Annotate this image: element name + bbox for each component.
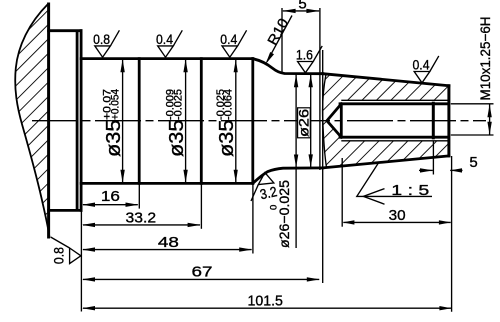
svg-text:1 : 5: 1 : 5 bbox=[391, 182, 429, 199]
fillet bottom and neck bottom edge bbox=[253, 168, 323, 183]
roughness 3.2 fillet (tilted) bbox=[248, 172, 275, 201]
svg-text:48: 48 bbox=[158, 234, 179, 251]
roughness 0.8 sec1 bbox=[93, 30, 119, 57]
extension line groove left bbox=[281, 8, 283, 73]
thread end line bbox=[340, 104, 343, 137]
taper symbol open arrow bbox=[363, 189, 384, 205]
fillet R10 top and neck top edge bbox=[253, 59, 323, 74]
svg-text:33.2: 33.2 bbox=[126, 209, 157, 226]
sec2 diameter label bbox=[165, 89, 188, 157]
svg-text:ø26−0.025: ø26−0.025 bbox=[276, 180, 292, 248]
hub chamfer line bbox=[76, 32, 79, 209]
roughness 0.4 sec2 bbox=[156, 30, 182, 57]
M10 dim line bbox=[489, 105, 491, 135]
roughness 0.4 sec3 bbox=[220, 30, 246, 57]
shaft bottom edge bbox=[81, 182, 253, 185]
taper bottom edge bbox=[323, 156, 449, 168]
svg-text:+0.054: +0.054 bbox=[110, 89, 122, 120]
local section break line bbox=[322, 74, 326, 168]
sec1 diameter label bbox=[102, 89, 125, 157]
dimension 101.5 bbox=[83, 307, 451, 309]
diameter dim line sec2 bbox=[185, 60, 187, 183]
neck diameter dim line (tolerance) bbox=[295, 74, 297, 248]
local section hatch around drill cone bbox=[323, 104, 342, 137]
extension line 67 bbox=[322, 50, 324, 283]
taper top edge bbox=[323, 74, 449, 86]
thread minor (drilled hole) thick lines bbox=[340, 102, 448, 105]
dimension 5 (right, to thread end) bbox=[432, 141, 434, 175]
svg-text:16: 16 bbox=[101, 188, 120, 205]
svg-text:0.8: 0.8 bbox=[93, 31, 110, 47]
svg-text:R10: R10 bbox=[264, 15, 292, 47]
extension line from flange right face bbox=[80, 186, 82, 312]
dimension 48 bbox=[83, 249, 252, 251]
thread depth line bbox=[432, 103, 435, 138]
svg-text:ø35: ø35 bbox=[103, 120, 125, 158]
svg-text:0: 0 bbox=[269, 205, 280, 210]
hub bottom edge bbox=[49, 209, 82, 212]
svg-text:-0.025: -0.025 bbox=[173, 89, 185, 120]
svg-text:67: 67 bbox=[192, 264, 213, 281]
shoulder 3 (48) bbox=[251, 59, 254, 184]
svg-text:0.4: 0.4 bbox=[413, 57, 430, 73]
sec3 diameter label bbox=[215, 89, 238, 157]
svg-text:1.6: 1.6 bbox=[296, 47, 313, 63]
flange break line bbox=[15, 4, 49, 237]
neck diameter label bbox=[269, 180, 293, 248]
svg-text:ø35: ø35 bbox=[216, 120, 238, 158]
neck basic diameter dim line bbox=[310, 74, 312, 167]
shaft top edge bbox=[81, 57, 253, 60]
local section hatch bottom band bbox=[324, 137, 448, 167]
svg-text:0.4: 0.4 bbox=[220, 31, 237, 47]
svg-text:0.8: 0.8 bbox=[50, 247, 66, 264]
flange left face bbox=[47, 4, 50, 237]
dimension 5 (top, groove width) bbox=[283, 10, 319, 12]
diameter dim line sec3 bbox=[235, 60, 237, 183]
svg-text:5: 5 bbox=[298, 0, 306, 13]
svg-text:ø35: ø35 bbox=[166, 120, 188, 158]
svg-text:M10x1.25−6H: M10x1.25−6H bbox=[477, 17, 493, 101]
roughness 1.6 neck bbox=[296, 46, 322, 73]
extension of end face down to 101.5 dim bbox=[451, 156, 453, 312]
svg-text:-0.064: -0.064 bbox=[223, 89, 235, 120]
svg-text:0.4: 0.4 bbox=[156, 31, 173, 47]
flange section hatch bbox=[15, 4, 50, 237]
shoulder 1 (16) bbox=[138, 59, 141, 184]
svg-text:101.5: 101.5 bbox=[247, 293, 283, 310]
R10 leader bbox=[267, 16, 292, 62]
flange right face bbox=[80, 31, 83, 211]
roughness 0.8 flange face (rotated) bbox=[51, 237, 81, 264]
neck basic diameter boxed label bbox=[298, 108, 311, 138]
dimension 16 bbox=[83, 204, 138, 206]
shoulder 2 (33.2) bbox=[200, 59, 203, 184]
roughness 0.4 taper bbox=[413, 56, 439, 83]
M10 extension lines bbox=[451, 103, 494, 105]
dimension 30 (thread length) bbox=[341, 158, 343, 227]
dimension 67 bbox=[83, 278, 319, 280]
taper end face bbox=[447, 86, 450, 156]
diameter dim line sec1 bbox=[122, 60, 124, 183]
local section hatch top band bbox=[323, 74, 448, 104]
hub top edge bbox=[49, 29, 82, 32]
thread major diameter thin lines bbox=[341, 99, 447, 101]
svg-text:30: 30 bbox=[389, 207, 406, 224]
extension line groove right / 5 top bbox=[319, 8, 321, 170]
taper symbol 1:5 leader bbox=[357, 162, 432, 196]
svg-text:5: 5 bbox=[469, 154, 477, 171]
M10 thread label bbox=[477, 17, 493, 101]
drill cone bbox=[327, 104, 341, 137]
centerline bbox=[32, 120, 486, 122]
dimension 33.2 bbox=[83, 224, 200, 226]
svg-text:ø26: ø26 bbox=[297, 109, 312, 137]
